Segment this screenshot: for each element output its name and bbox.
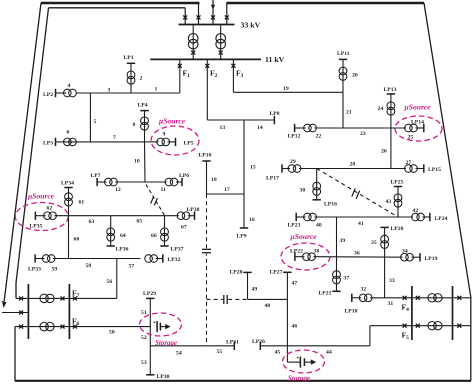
svg-text:53: 53 (141, 360, 147, 366)
wire LP5 link (168, 141, 176, 143)
wire branch 15 vertical (243, 120, 245, 194)
svg-text:13: 13 (220, 125, 226, 131)
endbar LP34 (64, 187, 72, 189)
transformer node 9 uSource LP5 (157, 138, 165, 146)
wire branch 41 horizontal (314, 216, 413, 218)
svg-text:LP35: LP35 (30, 224, 43, 230)
transformer node 35 (381, 235, 389, 243)
dashed tie horizontal (207, 298, 248, 300)
svg-text:6: 6 (67, 130, 70, 136)
svg-text:LP11: LP11 (337, 51, 350, 57)
storage 2 ellipse (283, 350, 325, 373)
wire LP24 link (423, 216, 430, 218)
svg-text:LP30: LP30 (157, 374, 170, 380)
svg-text:64: 64 (120, 233, 126, 239)
wire LP19 link (412, 256, 421, 258)
endbar LP27 (283, 271, 291, 273)
transformer node 25 uSource LP14 (405, 124, 413, 132)
wire branch 65 horizontal (111, 215, 179, 217)
transformer LP2 (64, 89, 72, 97)
svg-text:8: 8 (133, 122, 136, 128)
busbar left B (68, 284, 70, 339)
wire branch 58 horizontal (53, 258, 117, 260)
transformer LP7 (105, 178, 113, 186)
wire branch 43 vertical (397, 187, 399, 218)
transformer LP13 node 24 (387, 102, 395, 110)
transformer node 37 (333, 271, 341, 279)
endbar LP22 (294, 253, 296, 261)
svg-text:LP33: LP33 (28, 267, 41, 273)
svg-text:12: 12 (115, 187, 121, 193)
transformer node 27 (405, 165, 413, 173)
wire branch 39 vertical (336, 217, 338, 257)
svg-text:F2: F2 (210, 69, 218, 80)
svg-text:34: 34 (402, 249, 408, 255)
endbar LP2 (55, 89, 57, 97)
transformer LP33 node 59 (42, 255, 50, 263)
uSource LP14 ellipse (395, 116, 442, 141)
wire branch 14 horizontal (244, 119, 274, 121)
wire outer top busbar left segment (41, 2, 200, 4)
wire LP10 lead branch 18 (206, 161, 208, 194)
wire LP23 stub (296, 216, 305, 218)
transformer LP23 node 40 (304, 213, 312, 221)
wire bottom left vertical to F6 (14, 327, 16, 381)
svg-text:16: 16 (249, 217, 255, 223)
wire branch 33 vertical (384, 257, 386, 298)
endbar LP3 (55, 138, 57, 146)
endbar LP6 (181, 178, 183, 186)
wire branch 57 horizontal (117, 258, 141, 260)
transformer F6 (40, 322, 48, 330)
node LP4 lead (144, 111, 146, 142)
wire branch 44 horizontal (287, 345, 370, 347)
transformer node 64 (107, 228, 115, 236)
wire branch 7 horizontal (56, 141, 145, 143)
svg-text:57: 57 (129, 264, 135, 270)
svg-text:F5: F5 (402, 331, 410, 342)
breaker F5 a (403, 324, 407, 328)
svg-text:Storage: Storage (288, 374, 310, 382)
svg-text:LP20: LP20 (391, 226, 404, 232)
wire LP32 link (156, 258, 163, 260)
svg-text:47: 47 (292, 281, 298, 287)
svg-text:31: 31 (388, 301, 394, 307)
svg-text:11: 11 (161, 187, 167, 193)
svg-text:LP25: LP25 (391, 180, 404, 186)
breaker F7 mid (61, 296, 65, 300)
breaker F7 right (73, 296, 77, 300)
endbar LP14 (423, 124, 425, 132)
transformer LP12 node 22 (304, 124, 312, 132)
wire branch 16 vertical (243, 194, 245, 228)
wire inner left feeder vertical to F7 (15, 283, 17, 298)
endbar LP15 (423, 164, 425, 172)
svg-text:18: 18 (211, 177, 217, 183)
wire F4 row (412, 297, 471, 299)
svg-text:LP23: LP23 (288, 223, 301, 229)
svg-text:LP12: LP12 (288, 134, 301, 140)
endbar LP33 (34, 254, 36, 262)
wire feeder F7 row (16, 297, 117, 299)
wire branch 48 horizontal (248, 298, 288, 300)
svg-text:LP13: LP13 (384, 87, 397, 93)
svg-text:44: 44 (326, 350, 332, 356)
svg-text:56: 56 (107, 279, 113, 285)
wire uSource LP5 stub (145, 141, 159, 143)
svg-text:3: 3 (108, 88, 111, 94)
wire drop right to 33kV bus (226, 3, 228, 25)
svg-text:61: 61 (79, 200, 85, 206)
wire feeder F6 row (15, 326, 150, 328)
svg-text:38: 38 (314, 249, 320, 255)
endbar LP28 (243, 271, 251, 273)
svg-text:60: 60 (74, 236, 80, 242)
transformer F4 (428, 294, 436, 302)
svg-text:45: 45 (275, 350, 281, 356)
svg-text:LP24: LP24 (435, 216, 448, 222)
svg-text:LP3: LP3 (43, 141, 53, 147)
wire right border vertical (470, 297, 472, 381)
endbar LP37 (160, 245, 168, 247)
wire branch 10 vertical (144, 142, 147, 182)
wire LP14 link (416, 127, 424, 129)
wire node 64 drop (110, 216, 112, 246)
svg-text:65: 65 (137, 218, 143, 224)
wire branch 28 horizontal (299, 168, 406, 170)
svg-text:15: 15 (250, 165, 256, 171)
svg-text:LP38: LP38 (187, 207, 200, 213)
wire branch 54 horizontal (150, 345, 234, 347)
busbar left A (27, 284, 29, 339)
svg-text:67: 67 (181, 225, 187, 231)
svg-text:54: 54 (176, 351, 182, 357)
endbar LP36 (107, 245, 115, 247)
svg-text:μSource: μSource (404, 103, 432, 112)
svg-text:52: 52 (141, 335, 147, 341)
wire LP7 stub (97, 181, 106, 183)
wire branch 5 vertical (89, 93, 91, 142)
svg-text:LP14: LP14 (411, 120, 424, 126)
wire LP6 link (176, 181, 182, 183)
svg-text:10: 10 (134, 159, 140, 165)
uSource LP5 ellipse (151, 126, 199, 155)
breaker F4 b (416, 296, 420, 300)
wire branch 36 horizontal (313, 256, 402, 259)
transformer LP6 (165, 178, 173, 186)
svg-text:26: 26 (381, 149, 387, 155)
open switch on vertical tie (203, 248, 211, 253)
endbar LP30 (146, 374, 154, 376)
wire branch 11/12 horizontal (115, 181, 166, 183)
svg-text:LP15: LP15 (428, 167, 441, 173)
svg-text:LP32: LP32 (168, 257, 181, 263)
svg-text:29: 29 (290, 159, 296, 165)
svg-text:LP21: LP21 (319, 291, 332, 297)
endbar LP32 (162, 254, 164, 262)
svg-text:36: 36 (354, 251, 360, 257)
battery storage 2 (299, 357, 301, 368)
svg-text:24: 24 (378, 106, 384, 112)
wire right slanted feeder (424, 3, 471, 297)
storage 1 ellipse (140, 313, 182, 336)
busbar right A (411, 286, 413, 340)
endbar LP35 (34, 212, 36, 220)
wire LP20 lead (384, 227, 386, 257)
svg-text:LP26: LP26 (252, 339, 265, 345)
wire LP22 stub (295, 256, 305, 258)
svg-text:32: 32 (361, 287, 367, 293)
endbar LP8 (273, 116, 275, 124)
svg-text:59: 59 (52, 267, 58, 273)
svg-text:25: 25 (408, 135, 414, 141)
svg-text:F1: F1 (183, 69, 191, 80)
breaker on outer-left drop (197, 15, 201, 19)
svg-text:51: 51 (141, 310, 147, 316)
transformer node 34 (401, 253, 409, 261)
transformer node 29 (288, 165, 296, 173)
wire external link row (2, 312, 28, 314)
endbar LP11 (339, 58, 347, 60)
svg-text:63: 63 (89, 219, 95, 225)
svg-text:27: 27 (406, 160, 412, 166)
svg-text:49: 49 (252, 287, 258, 293)
svg-text:9: 9 (163, 132, 166, 138)
wire node 30 drop (316, 169, 318, 200)
wire outer left slanted feeder (4, 3, 41, 301)
11 kV busbar (150, 58, 261, 60)
wire LP11 lead (342, 59, 344, 92)
svg-text:LP28: LP28 (230, 270, 243, 276)
wire bottom busbar (15, 380, 471, 382)
svg-text:7: 7 (113, 135, 116, 141)
endbar LP20 (380, 226, 388, 228)
wire feeder F3 drop (232, 59, 234, 92)
svg-text:1: 1 (155, 87, 158, 93)
svg-text:LP29: LP29 (143, 291, 156, 297)
wire LP17 stub (282, 168, 290, 170)
svg-text:LP9: LP9 (237, 234, 247, 240)
svg-text:F3: F3 (236, 69, 244, 80)
svg-text:55: 55 (217, 349, 223, 355)
svg-text:14: 14 (257, 125, 263, 131)
wire branch 13 horizontal (207, 119, 244, 121)
svg-text:F4: F4 (402, 303, 410, 314)
wire LP18 stub (352, 297, 361, 299)
svg-text:66: 66 (151, 233, 157, 239)
endbar LP4 (140, 110, 148, 112)
transformer node 30 (313, 182, 321, 190)
wire transformer T2 primary lead (220, 25, 222, 60)
transformer node 32 (359, 294, 367, 302)
node LP1 lead (130, 63, 132, 93)
wire LP12 stub (295, 127, 306, 129)
svg-text:2: 2 (140, 76, 143, 82)
svg-text:LP22: LP22 (290, 249, 303, 255)
endbar LP7 (96, 178, 98, 186)
wire LP13 lead (390, 94, 392, 128)
svg-text:LP31: LP31 (226, 339, 239, 345)
endbar LP5 (175, 138, 177, 146)
svg-text:28: 28 (350, 162, 356, 168)
transformer LP3 (64, 138, 72, 146)
breaker feeder F1 (178, 64, 182, 68)
wire branch 47/46 vertical (286, 272, 288, 346)
endbar LP9 (240, 227, 248, 229)
breaker feeder F2 (205, 64, 209, 68)
transformer LP1 (127, 71, 135, 79)
svg-text:LP2: LP2 (43, 92, 53, 98)
endbar LP24 (429, 213, 431, 221)
wire LP29-LP30 bus (149, 298, 151, 374)
svg-text:μSource: μSource (27, 192, 55, 201)
svg-text:33 kV: 33 kV (241, 20, 261, 29)
transformer T2 (33/11 kV) (216, 34, 226, 44)
dashed tie 11 to 66 (146, 185, 165, 216)
wire branch 56 vertical (116, 259, 118, 299)
transformer LP4 (141, 117, 149, 125)
svg-text:30: 30 (300, 188, 306, 194)
endbar LP10 (202, 160, 210, 162)
svg-text:21: 21 (346, 110, 352, 116)
svg-text:LP18: LP18 (345, 309, 358, 315)
transformer LP32 (145, 255, 153, 263)
svg-text:5: 5 (94, 119, 97, 125)
svg-text:LP4: LP4 (138, 102, 148, 108)
wire branch 45 horizontal (260, 345, 287, 347)
svg-text:58: 58 (86, 263, 92, 269)
endbar LP38 (194, 212, 196, 220)
endbar LP17 (281, 164, 283, 172)
arrowhead grid supply (211, 5, 215, 10)
svg-text:4: 4 (68, 83, 71, 89)
breaker feeder F3 (231, 64, 235, 68)
endbar LP19 (419, 253, 421, 261)
breaker on supply line (211, 15, 215, 19)
wire drop inner-left to 33kV bus (184, 8, 186, 25)
transformer LP38 node 67 (177, 212, 185, 220)
open switch mark on tie (151, 196, 158, 205)
breaker F5 b (416, 324, 420, 328)
endbar LP16 (313, 199, 321, 201)
svg-text:LP17: LP17 (266, 176, 279, 182)
transformer node 43 (394, 194, 402, 202)
wire branch 26 vertical (390, 128, 392, 169)
wire branch 31 horizontal (370, 297, 412, 299)
wire drop outer-left to 33kV bus (198, 3, 200, 25)
svg-text:11 kV: 11 kV (265, 55, 285, 64)
wire node 37 drop (336, 257, 338, 291)
wire feeder F2 drop (206, 59, 208, 120)
svg-text:23: 23 (360, 131, 366, 137)
wire LP15 link (416, 168, 424, 170)
33 kV busbar (179, 24, 235, 26)
svg-text:41: 41 (358, 221, 364, 227)
storage 2 stub (286, 346, 288, 362)
endbar LP13 (387, 93, 395, 95)
breaker below T1 (191, 51, 195, 55)
endbar LP25 (394, 186, 402, 188)
endbar LP23 (295, 213, 297, 221)
uSource LP35 ellipse (15, 203, 68, 231)
uSource LP22 ellipse (281, 243, 330, 270)
wire branch 49 vertical (247, 272, 249, 299)
svg-text:39: 39 (340, 238, 346, 244)
svg-text:LP8: LP8 (270, 111, 280, 117)
endbar LP21 (332, 290, 340, 292)
endbar LP31 (233, 342, 235, 350)
dashed tie vertical (206, 194, 208, 346)
battery storage 1 (156, 321, 158, 332)
transformer T1 (33/11 kV) (188, 34, 198, 44)
wire LP33 stub (35, 258, 44, 260)
svg-text:LP1: LP1 (124, 55, 134, 61)
wire feeder F1 drop (179, 59, 181, 93)
transformer uSource node 62 (44, 212, 52, 220)
wire branch 60 vertical (68, 216, 70, 259)
svg-text:62: 62 (47, 205, 53, 211)
breaker F6 mid (61, 325, 65, 329)
breaker link row (19, 311, 23, 315)
open switch mark on tie (352, 189, 360, 199)
endbar LP12 (294, 124, 296, 132)
wire LP35 stub (35, 215, 45, 217)
svg-text:50: 50 (109, 330, 115, 336)
wire node 66 drop (164, 216, 166, 246)
arrowhead on outer left feeder (2, 301, 7, 308)
transformer uSource node 38 (303, 253, 311, 261)
svg-text:LP27: LP27 (270, 270, 283, 276)
wire transformer T1 primary lead (192, 25, 194, 60)
wire branch 21 vertical (342, 92, 344, 128)
svg-text:33: 33 (389, 278, 395, 284)
wire F5 row (370, 325, 471, 327)
wire branch 22/23 horizontal (314, 127, 406, 129)
transformer F5 (428, 322, 436, 330)
wire branch 63 horizontal (54, 215, 110, 217)
svg-text:40: 40 (316, 223, 322, 229)
svg-text:46: 46 (292, 324, 298, 330)
transformer F7 (40, 294, 48, 302)
breaker F7 left (19, 296, 23, 300)
wire LP38 link (188, 215, 195, 217)
svg-text:μSource: μSource (158, 117, 186, 126)
transformer LP34 node 61 (65, 193, 73, 201)
svg-text:LP19: LP19 (425, 256, 438, 262)
svg-text:20: 20 (352, 73, 358, 79)
open switch on horizontal tie (223, 295, 228, 303)
breaker F6 right (73, 325, 77, 329)
wire branch 17 horizontal (207, 193, 245, 195)
svg-text:LP5: LP5 (184, 141, 194, 147)
svg-text:LP6: LP6 (179, 173, 189, 179)
svg-text:48: 48 (265, 303, 271, 309)
dashed tie 30 to 41 (317, 169, 398, 218)
svg-text:LP10: LP10 (199, 153, 212, 159)
svg-text:μSource: μSource (290, 232, 318, 241)
wire outer top busbar right segment (226, 2, 424, 4)
breaker F4 a (403, 296, 407, 300)
breaker on right drop (225, 15, 229, 19)
transformer LP11 node 20 (339, 67, 347, 75)
svg-text:22: 22 (316, 134, 322, 140)
breaker F4 c (457, 296, 461, 300)
endbar LP1 (127, 62, 135, 64)
wire inner left slanted feeder (16, 8, 49, 283)
transformer node 66 (161, 228, 169, 236)
transformer node 42 (412, 213, 420, 221)
breaker F5 c (457, 324, 461, 328)
